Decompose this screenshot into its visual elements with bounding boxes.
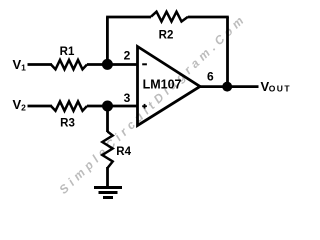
wire V2 to R3 [28,105,53,108]
wire op-amp output [200,85,259,88]
svg-text:LM107: LM107 [143,78,182,92]
op-amp minus sign [142,63,147,65]
node junction dot at pin 3 [102,101,113,112]
svg-text:OUT: OUT [269,84,291,94]
node junction dot at pin 2 [102,59,113,70]
op-amp plus sign [142,104,147,109]
wire feedback top left [106,16,151,19]
resistor R1 [51,60,87,69]
svg-text:R3: R3 [60,117,75,129]
svg-text:2: 2 [124,48,131,62]
wire R1 to op-amp inverting input [87,63,138,66]
op-amp U1 LM107 [138,47,201,126]
resistor R3 [51,101,87,110]
wire R3 to op-amp non-inverting input [87,105,138,108]
wire feedback right vertical [226,17,229,87]
wire R4 to ground [106,167,109,188]
wire pin3 node down to R4 [106,106,109,132]
wire feedback top right [188,16,229,19]
svg-text:R4: R4 [116,146,131,158]
svg-text:6: 6 [207,69,214,83]
resistor R4 [102,132,112,169]
svg-text:3: 3 [124,91,131,105]
svg-text:R2: R2 [159,30,174,42]
wire V1 to R1 [28,63,53,66]
resistor R2 [151,12,188,22]
wire feedback left vertical [106,17,109,65]
svg-text:R1: R1 [60,46,75,58]
node output junction dot [222,82,232,92]
ground [94,188,122,198]
